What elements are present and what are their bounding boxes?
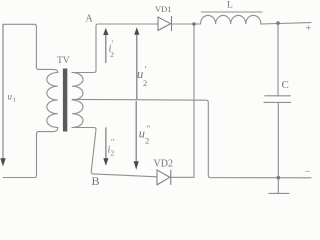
arrow u1 (input voltage, down)	[0, 24, 5, 166]
arrow i"2 (down)	[103, 127, 108, 165]
capacitor C top plate	[265, 95, 291, 97]
i"2 label	[108, 138, 115, 158]
transformer TV primary winding	[47, 73, 58, 128]
u'2 label	[137, 65, 147, 89]
svg-text:″: ″	[111, 138, 114, 147]
svg-text:″: ″	[147, 124, 151, 134]
inductor L humps	[201, 15, 261, 24]
svg-text:A: A	[86, 14, 94, 25]
svg-text:2: 2	[145, 136, 149, 146]
svg-text:u: u	[8, 91, 13, 101]
bottom stub bar	[269, 192, 289, 194]
arrow i'2 (up)	[103, 28, 108, 63]
wire primary bottom lead	[3, 128, 57, 178]
transformer TV secondary winding	[72, 73, 83, 128]
wire cathode tie line VD1-VD2	[193, 24, 195, 177]
i'2 label	[109, 39, 115, 59]
svg-text:C: C	[282, 79, 289, 91]
wire inductor to + terminal	[261, 23, 311, 24]
node junction dot VD1 cathode	[192, 22, 196, 26]
node junction dot capacitor bottom	[277, 176, 281, 180]
u1 label	[8, 91, 17, 103]
capacitor C bottom plate	[264, 101, 291, 103]
node junction dot capacitor top	[276, 21, 280, 25]
svg-text:′: ′	[145, 65, 147, 75]
wire top-left input	[3, 24, 58, 72]
svg-text:TV: TV	[57, 56, 70, 66]
capacitor C top lead	[277, 23, 279, 96]
arrow u"2 (down)	[134, 101, 139, 170]
transformer core bar	[63, 69, 67, 132]
svg-text:VD1: VD1	[155, 4, 172, 14]
arrow u'2 (up)	[134, 27, 139, 99]
capacitor C bottom lead crossing bottom rail	[277, 102, 279, 193]
svg-text:2: 2	[110, 50, 114, 59]
u"2 label	[139, 124, 151, 146]
svg-text:1: 1	[13, 97, 16, 104]
inductor L core bar	[202, 11, 263, 13]
svg-text:L: L	[227, 1, 233, 11]
svg-text:VD2: VD2	[154, 159, 173, 170]
svg-text:2: 2	[143, 78, 147, 88]
wire VD1 cathode to inductor	[172, 23, 201, 25]
diode VD1	[158, 16, 172, 31]
wire secondary bottom lead to node B and VD2	[72, 128, 157, 177]
svg-text:2: 2	[111, 149, 115, 158]
svg-text:−: −	[305, 167, 311, 178]
svg-text:+: +	[306, 24, 312, 35]
svg-text:′: ′	[112, 39, 114, 48]
wire center tap to bottom rail	[72, 99, 311, 177]
wire secondary top lead to node A and VD1	[72, 24, 158, 73]
wire VD2 cathode to tie line	[171, 176, 195, 178]
svg-text:B: B	[92, 174, 100, 188]
diode VD2	[157, 170, 171, 185]
